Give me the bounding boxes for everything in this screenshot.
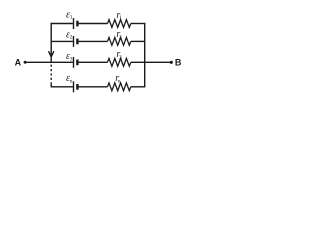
cell E2 long plate <box>73 36 75 47</box>
left bus (middle segment, branch 2 to branch 3, carries arrow) <box>50 41 52 62</box>
wire branch1 right <box>131 23 146 25</box>
wire branch3 right to node B <box>131 61 171 63</box>
svg-text:n: n <box>70 78 73 84</box>
left bus (bottom solid piece at branch n corner) <box>50 83 52 87</box>
wire branch3 from node A through left bus to cell <box>26 61 73 63</box>
right bus <box>144 23 146 87</box>
cell E3 long plate <box>73 57 75 68</box>
wire branch1 left <box>51 23 73 25</box>
cell E1 short plate <box>76 21 78 27</box>
resistor R3 <box>108 58 131 66</box>
cell En short plate <box>76 84 78 90</box>
svg-text:A: A <box>15 57 22 67</box>
svg-text:2: 2 <box>70 35 73 41</box>
svg-text:3: 3 <box>119 54 122 60</box>
wire branch2 middle <box>79 40 108 42</box>
wire branch2 right <box>131 40 145 42</box>
resistor R2 <box>108 38 131 46</box>
svg-text:3: 3 <box>70 56 73 62</box>
wire branch2 left <box>51 40 73 42</box>
svg-text:2: 2 <box>119 34 122 40</box>
resistor R1 <box>108 20 131 28</box>
left bus (top segment, branch 1 to branch 2) <box>50 23 52 42</box>
svg-text:n: n <box>118 78 121 84</box>
node B dot <box>170 61 173 64</box>
node A dot <box>24 61 27 64</box>
wire branch3 middle <box>79 61 108 63</box>
resistor Rn <box>108 83 131 91</box>
cell En long plate <box>73 81 75 92</box>
cell E2 short plate <box>76 39 78 45</box>
wire branch n left <box>51 86 73 88</box>
svg-text:B: B <box>175 58 182 68</box>
svg-text:1: 1 <box>119 15 122 21</box>
cell E3 short plate <box>76 60 78 66</box>
dashed continuation of left bus (branch 3 to branch n) <box>50 65 52 84</box>
cell E1 long plate <box>73 18 75 29</box>
wire branch1 middle <box>79 23 108 25</box>
wire branch n middle <box>79 86 108 88</box>
wire branch n right <box>131 86 146 88</box>
current arrow on left bus <box>49 51 54 57</box>
svg-text:1: 1 <box>70 15 73 21</box>
